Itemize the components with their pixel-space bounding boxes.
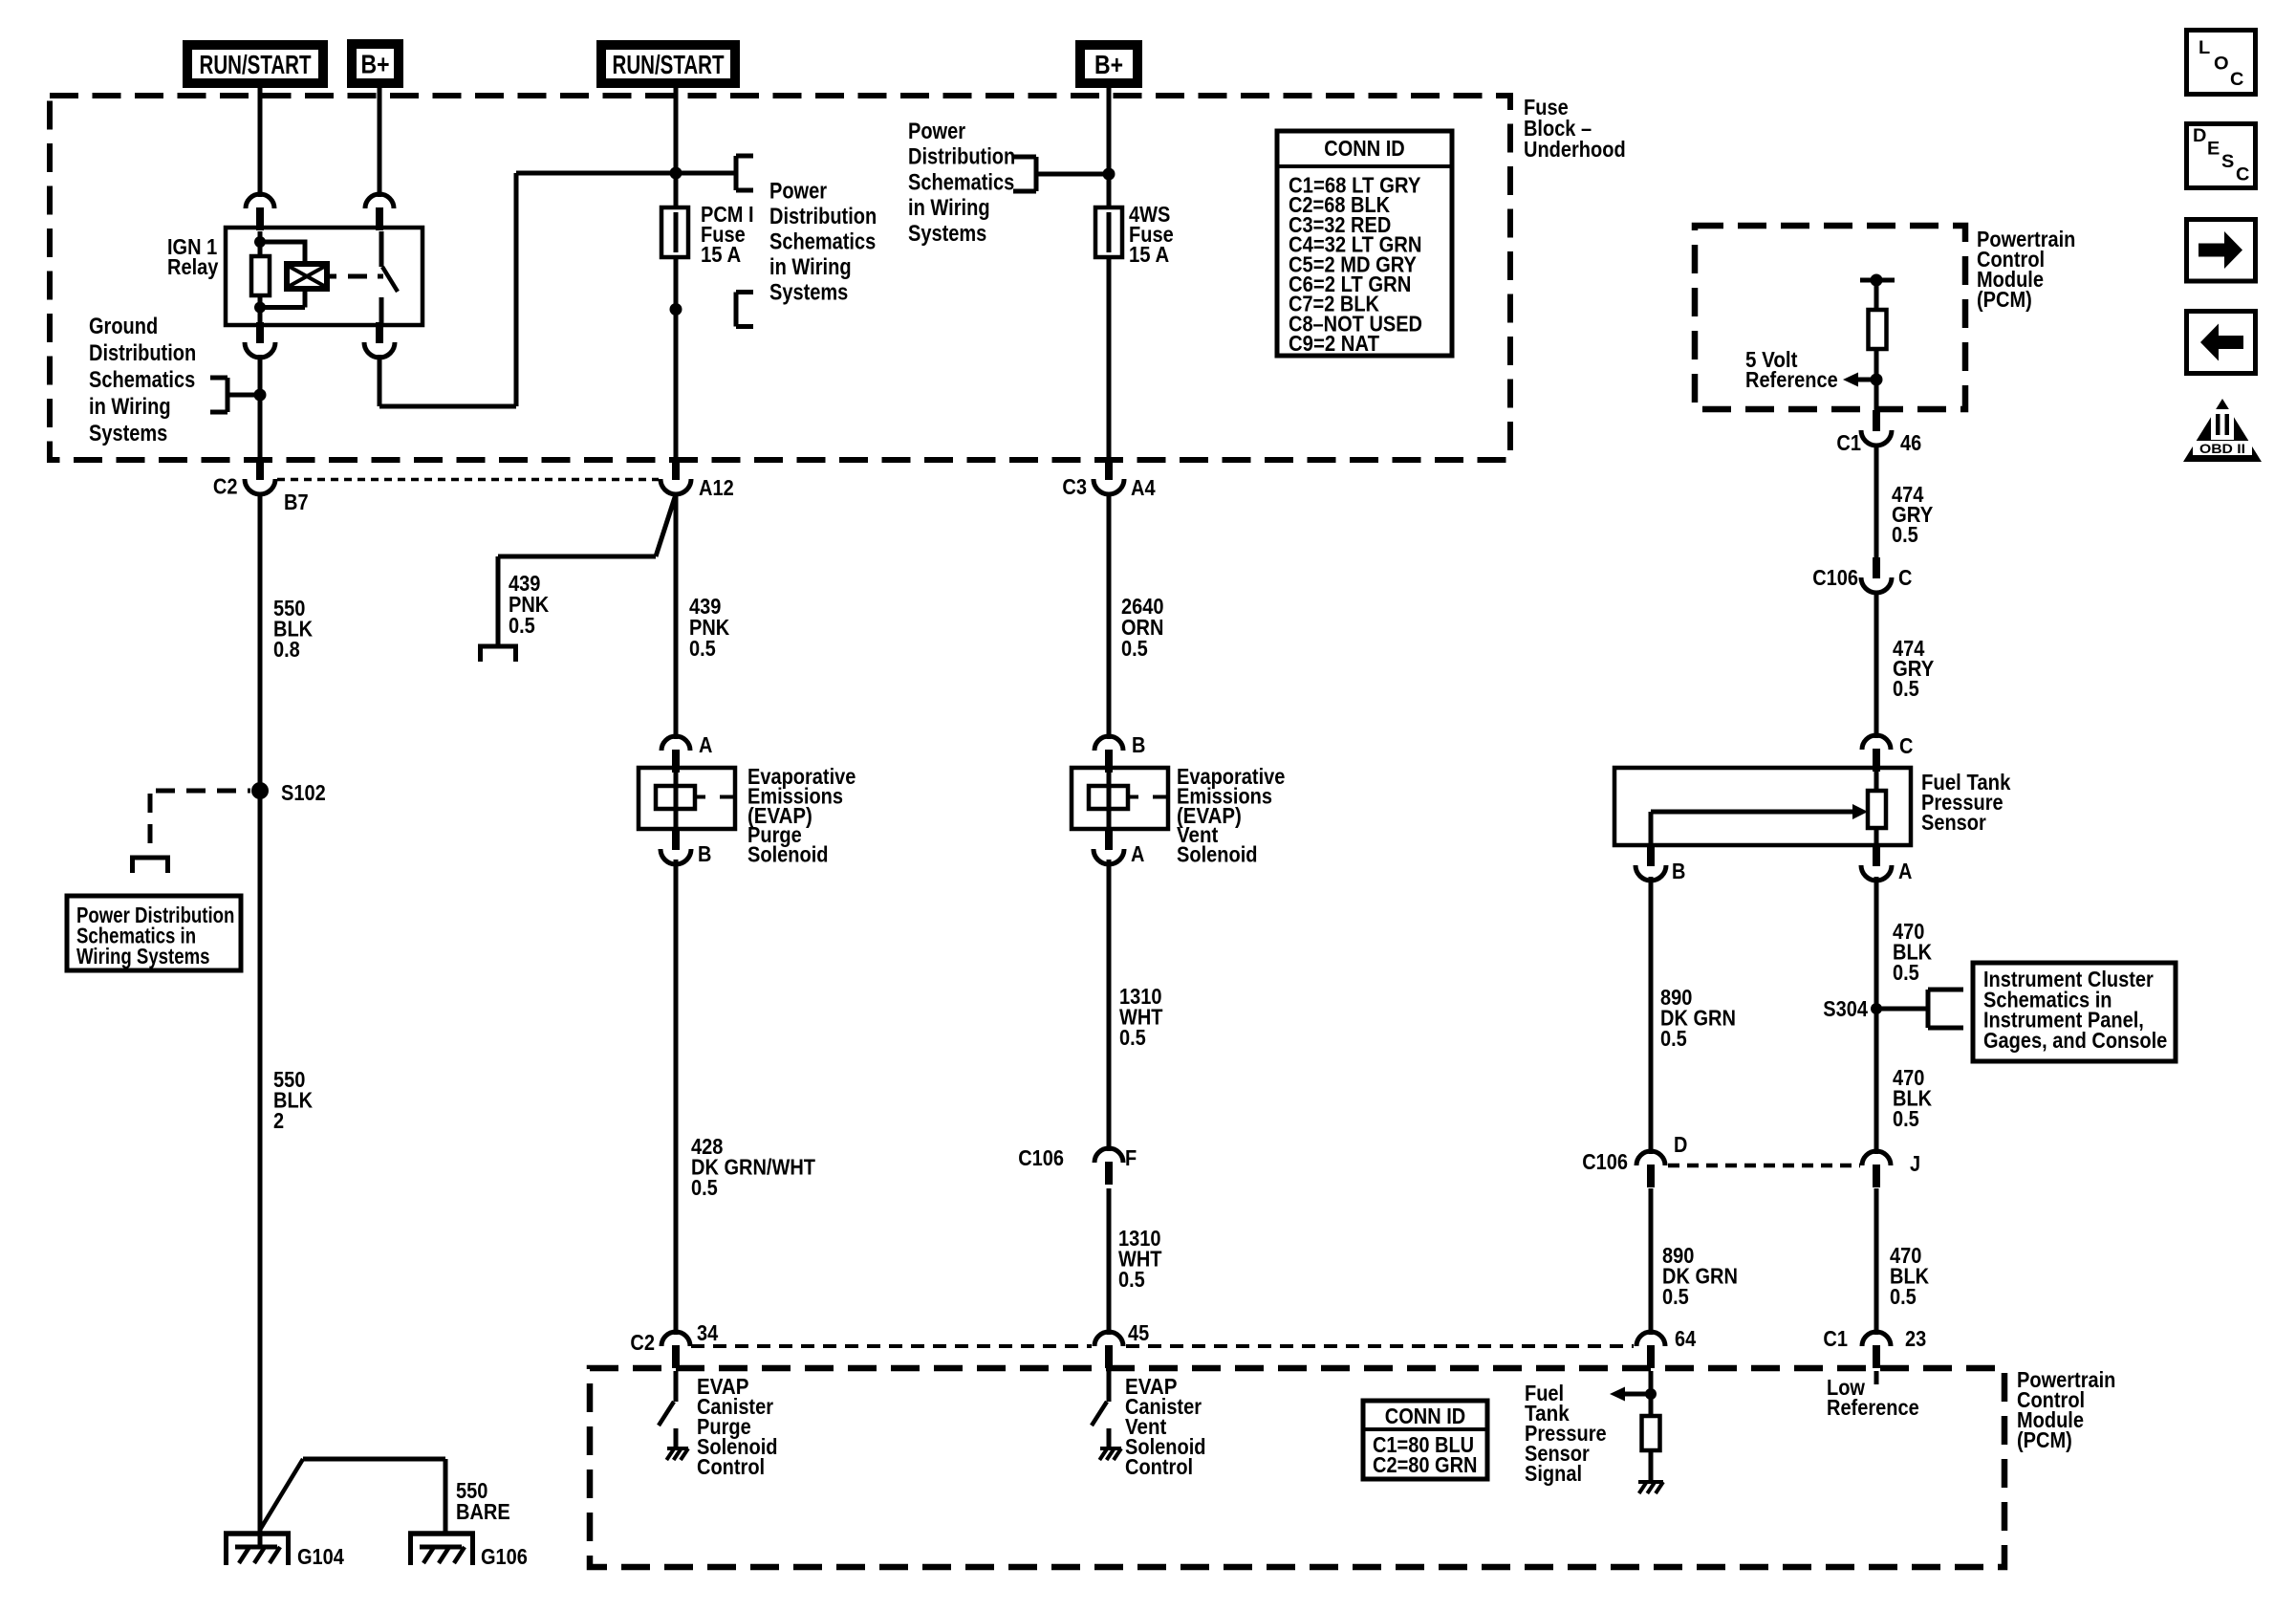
svg-text:Reference: Reference: [1827, 1395, 1919, 1420]
svg-text:Schematics: Schematics: [908, 169, 1014, 195]
svg-text:C2=80 GRN: C2=80 GRN: [1373, 1452, 1478, 1477]
svg-text:45: 45: [1128, 1320, 1149, 1345]
svg-text:B+: B+: [361, 50, 390, 79]
svg-text:Relay: Relay: [167, 254, 219, 279]
svg-text:A12: A12: [699, 475, 734, 500]
svg-text:C1: C1: [1823, 1326, 1848, 1351]
svg-text:0.5: 0.5: [1890, 1284, 1917, 1309]
svg-text:Control: Control: [1125, 1454, 1193, 1479]
svg-text:Sensor: Sensor: [1921, 810, 1986, 835]
svg-text:0.5: 0.5: [509, 613, 535, 638]
svg-text:Systems: Systems: [908, 221, 986, 247]
svg-text:G104: G104: [297, 1544, 344, 1569]
svg-text:A4: A4: [1131, 475, 1156, 500]
svg-text:RUN/START: RUN/START: [200, 50, 312, 79]
svg-text:(PCM): (PCM): [2017, 1427, 2072, 1452]
svg-text:Wiring Systems: Wiring Systems: [76, 944, 210, 969]
svg-text:A: A: [1131, 841, 1144, 866]
svg-text:B7: B7: [284, 490, 309, 514]
svg-text:0.5: 0.5: [689, 636, 716, 661]
svg-text:C: C: [1899, 733, 1913, 758]
svg-text:in Wiring: in Wiring: [769, 254, 852, 280]
svg-text:L: L: [2199, 38, 2211, 58]
svg-text:Power: Power: [769, 179, 827, 205]
svg-text:Reference: Reference: [1745, 367, 1838, 392]
svg-text:Underhood: Underhood: [1524, 137, 1626, 162]
svg-text:B: B: [698, 841, 711, 866]
svg-text:in Wiring: in Wiring: [908, 195, 990, 221]
svg-text:Distribution: Distribution: [908, 144, 1015, 170]
svg-text:2: 2: [273, 1108, 284, 1133]
svg-text:0.5: 0.5: [1892, 522, 1918, 547]
svg-text:D: D: [2193, 126, 2206, 146]
svg-text:0.5: 0.5: [1893, 1106, 1919, 1131]
svg-text:O: O: [2214, 54, 2229, 75]
svg-text:S102: S102: [281, 780, 326, 805]
svg-text:Control: Control: [697, 1454, 765, 1479]
svg-text:Systems: Systems: [769, 280, 848, 306]
svg-text:34: 34: [697, 1320, 718, 1345]
svg-text:BARE: BARE: [456, 1499, 510, 1524]
svg-text:B: B: [1132, 732, 1145, 757]
svg-text:CONN ID: CONN ID: [1385, 1404, 1465, 1428]
svg-text:C: C: [2230, 70, 2244, 90]
svg-text:Distribution: Distribution: [769, 204, 877, 229]
svg-text:E: E: [2207, 140, 2220, 160]
svg-text:23: 23: [1905, 1326, 1926, 1351]
svg-text:C9=2 NAT: C9=2 NAT: [1289, 331, 1379, 356]
svg-text:Signal: Signal: [1525, 1461, 1582, 1486]
svg-text:C: C: [1898, 565, 1912, 590]
svg-text:0.5: 0.5: [1118, 1267, 1145, 1292]
svg-text:Solenoid: Solenoid: [1177, 842, 1258, 867]
svg-text:46: 46: [1900, 430, 1921, 455]
svg-text:0.5: 0.5: [691, 1175, 718, 1200]
svg-text:0.5: 0.5: [1893, 960, 1919, 985]
svg-text:F: F: [1125, 1145, 1137, 1170]
svg-text:C2: C2: [213, 474, 238, 499]
svg-text:Gages, and Console: Gages, and Console: [1983, 1028, 2167, 1053]
svg-text:C106: C106: [1582, 1149, 1628, 1174]
svg-text:Schematics: Schematics: [769, 229, 876, 255]
svg-text:A: A: [699, 732, 712, 757]
svg-text:in Wiring: in Wiring: [89, 394, 171, 420]
svg-text:C106: C106: [1018, 1145, 1064, 1170]
svg-text:0.5: 0.5: [1893, 676, 1919, 701]
svg-text:0.5: 0.5: [1660, 1026, 1687, 1051]
svg-text:0.5: 0.5: [1121, 636, 1148, 661]
svg-text:15 A: 15 A: [1129, 242, 1169, 267]
svg-text:D: D: [1674, 1132, 1687, 1157]
svg-text:Power: Power: [908, 119, 965, 144]
svg-text:0.8: 0.8: [273, 637, 300, 662]
svg-text:RUN/START: RUN/START: [613, 50, 725, 79]
svg-text:Systems: Systems: [89, 421, 167, 446]
svg-text:C106: C106: [1812, 565, 1858, 590]
svg-text:0.5: 0.5: [1662, 1284, 1689, 1309]
svg-text:C2: C2: [630, 1330, 655, 1355]
svg-text:Solenoid: Solenoid: [747, 842, 829, 867]
svg-text:C3: C3: [1062, 474, 1087, 499]
svg-text:C: C: [2236, 165, 2250, 185]
svg-text:64: 64: [1675, 1326, 1696, 1351]
svg-text:CONN ID: CONN ID: [1324, 136, 1404, 161]
svg-text:C1: C1: [1836, 430, 1861, 455]
svg-text:B: B: [1672, 859, 1685, 883]
svg-text:OBD II: OBD II: [2199, 441, 2245, 456]
svg-text:J: J: [1910, 1151, 1920, 1176]
svg-text:(PCM): (PCM): [1977, 287, 2032, 312]
svg-text:G106: G106: [481, 1544, 528, 1569]
svg-text:Schematics: Schematics: [89, 367, 195, 393]
svg-text:Ground: Ground: [89, 314, 158, 339]
svg-text:Distribution: Distribution: [89, 340, 196, 366]
svg-text:15 A: 15 A: [701, 242, 741, 267]
svg-text:B+: B+: [1094, 50, 1123, 79]
svg-text:0.5: 0.5: [1119, 1025, 1146, 1050]
svg-text:A: A: [1898, 859, 1912, 883]
svg-text:S: S: [2221, 152, 2234, 172]
svg-text:S304: S304: [1823, 996, 1868, 1021]
